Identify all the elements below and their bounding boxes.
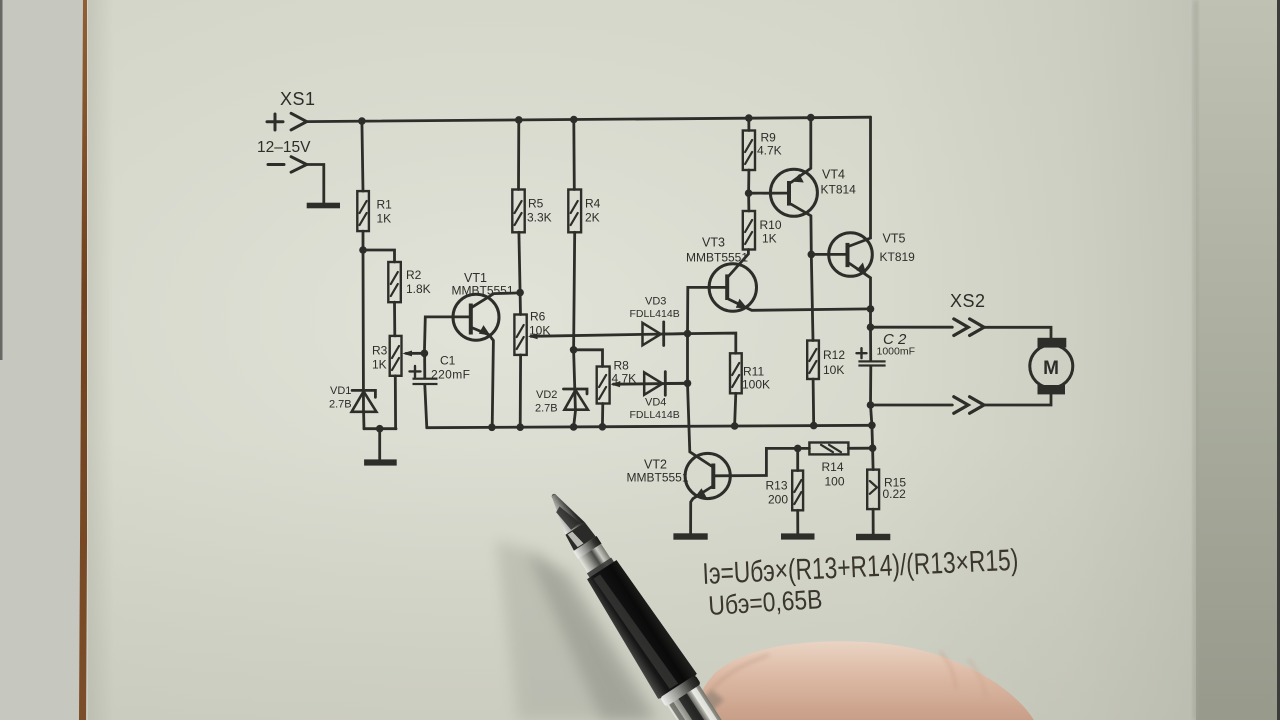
node R9/R10/VT4 base <box>745 189 753 197</box>
svg-text:10K: 10K <box>823 363 844 377</box>
svg-text:VD2: VD2 <box>536 389 557 401</box>
wire VT2 emitter <box>691 487 712 533</box>
svg-text:4.7K: 4.7K <box>757 144 782 158</box>
svg-text:R12: R12 <box>823 348 845 362</box>
node ground link <box>376 425 384 433</box>
wire VD3 node to VD4 node <box>686 334 689 384</box>
wire XS2 node to rail end <box>871 405 872 425</box>
wire VD3 node to R11 <box>688 333 736 353</box>
resistor R4 <box>568 190 600 233</box>
svg-text:XS1: XS1 <box>280 89 316 109</box>
wire R6 top lead <box>519 293 522 315</box>
resistor R5 <box>512 190 551 233</box>
wire ground bottom rail <box>427 425 872 427</box>
diode VD3 <box>630 296 680 346</box>
wire R10 top lead <box>747 193 750 211</box>
wire R4 top lead <box>572 120 575 190</box>
wire R13 top lead <box>796 448 799 470</box>
transistor VT4 <box>770 168 856 217</box>
wire R15 top lead <box>871 448 874 469</box>
motor M <box>1030 338 1073 395</box>
ground (VD1/R3) <box>364 459 397 465</box>
svg-text:1000mF: 1000mF <box>877 346 916 358</box>
resistor R9 <box>743 131 782 171</box>
wire XS2 bottom to motor <box>984 395 1051 405</box>
svg-text:2.7B: 2.7B <box>329 399 352 411</box>
node rail/VT4 emitter <box>807 114 815 122</box>
wire R14 right lead <box>848 447 872 450</box>
wire VT3 collector <box>728 250 749 278</box>
svg-text:XS2: XS2 <box>950 291 986 311</box>
wire VD3 cathode <box>664 332 688 335</box>
wire VT5 emitter <box>850 263 871 309</box>
svg-text:VT2: VT2 <box>644 458 667 472</box>
svg-text:12–15V: 12–15V <box>257 139 311 156</box>
wire emitter node to XS2 node <box>869 309 872 327</box>
svg-text:R4: R4 <box>585 197 601 211</box>
ground (R13) <box>781 533 815 539</box>
node rail/VD2 <box>570 423 578 431</box>
node R14/R15 <box>869 444 877 452</box>
svg-text:1K: 1K <box>377 212 392 226</box>
wire VT3 emitter to VT5 emitter <box>728 299 871 311</box>
wire rail end to R14/R15 node <box>871 425 874 448</box>
svg-text:2.7B: 2.7B <box>535 403 558 415</box>
resistor R8 <box>597 359 636 404</box>
svg-text:R9: R9 <box>761 131 777 145</box>
svg-text:R13: R13 <box>766 479 788 493</box>
svg-text:R8: R8 <box>614 359 630 373</box>
node rail end <box>868 422 876 430</box>
resistor R11 <box>730 353 770 393</box>
wire R6 wiper to VD3 anode <box>528 333 688 339</box>
svg-text:MMBT5551: MMBT5551 <box>452 284 514 298</box>
zener diode VD2 <box>535 389 588 415</box>
svg-text:KT819: KT819 <box>880 250 916 264</box>
resistor R6 <box>514 310 550 355</box>
svg-text:1K: 1K <box>762 232 777 246</box>
node rail/R9 <box>745 114 753 122</box>
node VD3/VT3 base/R11 <box>684 330 692 338</box>
resistor R15 <box>867 470 906 510</box>
node VT3/VT5 emitters <box>867 305 875 313</box>
connector XS1 <box>257 89 316 172</box>
resistor R12 <box>807 341 845 380</box>
svg-text:R5: R5 <box>528 197 544 211</box>
svg-text:R10: R10 <box>760 218 782 232</box>
node rail/VT1 emitter <box>488 424 496 432</box>
diode VD4 <box>630 372 680 421</box>
node rail/R1 <box>358 117 366 125</box>
svg-text:R14: R14 <box>822 460 844 474</box>
wire R11 bottom <box>735 393 736 426</box>
svg-text:VD1: VD1 <box>330 385 351 397</box>
wire XS1 minus to ground <box>307 165 324 203</box>
wire +V top rail <box>307 117 871 121</box>
svg-text:FDLL414B: FDLL414B <box>630 308 680 320</box>
node R1/R2/VD1 <box>359 246 367 254</box>
svg-text:KT814: KT814 <box>821 183 857 197</box>
node rail/R4 <box>570 116 578 124</box>
wire VT1 collector <box>472 293 521 308</box>
zener diode VD1 <box>329 385 376 412</box>
wire VD1 bottom <box>362 412 365 429</box>
transistor VT2 <box>627 453 731 498</box>
wire XS2 top to motor <box>984 327 1051 338</box>
wire node to R8 <box>574 350 603 367</box>
wire R5 bottom <box>519 232 520 292</box>
node XS2 top <box>867 323 875 331</box>
ground (XS1 minus) <box>307 203 340 209</box>
wire C2 bottom lead <box>869 367 872 405</box>
svg-text:1.8K: 1.8K <box>406 282 431 296</box>
node rail/R8 <box>599 423 607 431</box>
wire VT1 base <box>424 317 468 353</box>
svg-text:R1: R1 <box>377 198 393 212</box>
svg-text:220mF: 220mF <box>431 368 470 382</box>
svg-text:1K: 1K <box>372 358 387 372</box>
wire VT4 collector <box>791 204 811 254</box>
connector XS2 <box>950 291 986 413</box>
svg-text:VT3: VT3 <box>702 236 725 250</box>
wire R8 bottom <box>601 404 604 427</box>
capacitor C2 <box>857 331 916 367</box>
node rail/R12 <box>810 422 818 430</box>
wire XS2 top left <box>871 326 953 329</box>
wire VD2 top lead <box>574 350 576 410</box>
wire R12 bottom <box>812 379 815 426</box>
svg-text:M: M <box>1043 358 1059 379</box>
wire VD2 bottom <box>574 410 576 427</box>
wire R3 wiper arrow <box>402 351 424 357</box>
node XS2 bottom <box>867 401 875 409</box>
wire VT4 emitter <box>791 118 811 183</box>
node rail/R11 <box>731 422 739 430</box>
wire C1 top lead <box>423 353 426 377</box>
wire R13 bottom <box>796 510 799 533</box>
svg-text:VT5: VT5 <box>883 232 906 246</box>
svg-text:VD3: VD3 <box>645 296 666 308</box>
ground (R15) <box>856 534 890 540</box>
resistor R1 <box>357 191 392 231</box>
transistor VT1 <box>452 271 514 340</box>
svg-text:R3: R3 <box>372 344 388 358</box>
resistor R2 <box>388 262 430 302</box>
wire R1 top lead <box>362 121 363 191</box>
resistor R3 <box>372 336 402 376</box>
wire C1 bottom to rail corner <box>425 385 427 428</box>
wire R9 bottom <box>747 170 750 193</box>
wire R2 to R3 <box>393 302 396 336</box>
svg-text:100: 100 <box>825 475 845 489</box>
resistor R13 <box>766 471 804 511</box>
wire VT2 base <box>715 448 797 475</box>
node rail/R6 <box>516 423 524 431</box>
wire R5 top lead <box>517 120 520 190</box>
svg-text:VD4: VD4 <box>645 397 666 409</box>
svg-text:R6: R6 <box>530 310 546 324</box>
svg-text:MMBT5551: MMBT5551 <box>627 471 689 485</box>
svg-text:R2: R2 <box>406 268 422 282</box>
wire C2 top lead <box>869 327 872 360</box>
wire R9 top lead <box>747 118 750 130</box>
svg-text:0.22: 0.22 <box>883 487 907 501</box>
wire R14 left lead <box>798 447 810 450</box>
transistor VT3 <box>686 236 757 312</box>
svg-text:C1: C1 <box>440 354 456 368</box>
node R3 wiper / C1 / VT1 base <box>421 350 429 358</box>
wire R15 bottom <box>872 509 875 534</box>
node R4/R8/VD2 <box>570 346 578 354</box>
wire VD1 top lead <box>362 250 365 412</box>
svg-text:VT4: VT4 <box>822 168 845 182</box>
node VT1 collector / R5 / R6 <box>516 289 524 297</box>
wire VT1 emitter <box>472 325 494 427</box>
wire VD4 cathode <box>665 382 687 385</box>
wire VT4 base <box>749 192 787 195</box>
node VT4 collector/VT5 base/R12 <box>808 251 816 259</box>
svg-text:200: 200 <box>768 493 788 507</box>
wire VT3 base column <box>688 287 725 333</box>
wire R1 bottom <box>362 231 365 250</box>
wire VD1/R3 ground link <box>364 427 396 430</box>
transistor VT5 <box>829 232 915 277</box>
node VD4/VT2 collector <box>684 380 692 388</box>
wire R8 wiper to VD4 anode <box>610 381 687 387</box>
wire VT5 base <box>811 253 845 256</box>
wire ground stub <box>378 429 381 460</box>
svg-text:2K: 2K <box>585 211 600 225</box>
wire R3 bottom <box>394 376 397 429</box>
svg-text:FDLL414B: FDLL414B <box>630 409 680 421</box>
capacitor C1 <box>410 354 471 386</box>
wire R4 bottom <box>574 232 575 349</box>
wire XS2 bottom left <box>871 404 953 407</box>
svg-text:100K: 100K <box>742 378 770 392</box>
node rail/R5 <box>515 116 523 124</box>
wire node to R2 <box>363 250 395 262</box>
svg-text:MMBT5551: MMBT5551 <box>686 251 748 265</box>
resistor R10 <box>743 211 782 250</box>
wire VT2 collector column <box>688 383 712 466</box>
wire R12 top lead <box>811 254 813 340</box>
node VT2 base/R13/R14 <box>794 445 802 453</box>
ground (VT2 emitter) <box>673 533 707 539</box>
svg-text:3.3K: 3.3K <box>527 211 552 225</box>
wire R6 bottom <box>519 355 522 427</box>
resistor R14 <box>809 443 848 489</box>
svg-text:R11: R11 <box>743 365 764 379</box>
wire VT5 collector <box>850 117 871 246</box>
